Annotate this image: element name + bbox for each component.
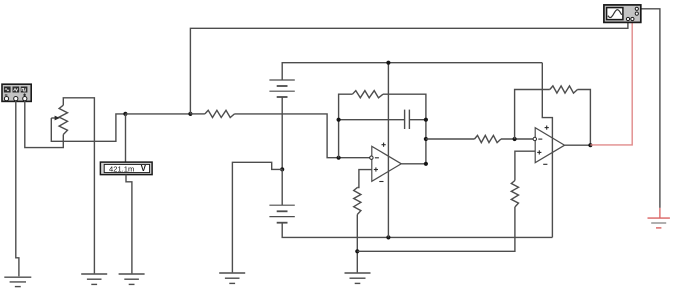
capacitor C1 right wire: [409, 119, 426, 121]
op-amp U3: [535, 128, 564, 163]
wire oscilloscope ground terminal: [641, 9, 660, 208]
node C1 left: [337, 118, 341, 122]
wire U3 output to oscilloscope channel B (red): [590, 21, 632, 145]
wire R5 to U3 inverting input: [501, 138, 534, 140]
node negative rail / U2 VEE: [386, 235, 390, 239]
ground (potentiometer top): [81, 274, 107, 284]
ground (supply center tap): [219, 273, 245, 283]
op-amp U3 V+ label: [545, 126, 549, 130]
wire center tap to ground: [232, 162, 282, 272]
wire battery V2 bottom to negative rail: [282, 223, 552, 238]
battery V1 plates: [269, 80, 294, 97]
function generator XFG1: [2, 84, 31, 101]
op-amp U3 plus label: [537, 150, 541, 154]
op-amp U2 V- label: [379, 181, 383, 183]
wire XFG1 common terminal down: [16, 101, 19, 277]
wire node B to resistor R2: [190, 113, 205, 115]
resistor R7 (U3 + input bias): [511, 181, 518, 208]
node G (U3 inverting input): [513, 137, 517, 141]
wire R1 wiper to node A: [51, 114, 125, 141]
voltmeter U1 (421.1m V): [100, 162, 152, 175]
wire U2 non-inverting input to resistor R4: [357, 170, 372, 188]
node E (U2 output): [424, 162, 428, 166]
wire R2 to op-amp U2 inverting input: [235, 114, 371, 158]
op-amp U3 V- label: [543, 163, 547, 165]
battery V2 plates: [269, 205, 294, 223]
resistor R6 (feedback of U3): [550, 86, 578, 93]
capacitor C1: [405, 110, 410, 129]
node A: [123, 112, 127, 116]
wire R3 to output rail: [383, 94, 426, 164]
wire R6 to U3 output: [578, 90, 591, 146]
wire R7 top to U3 non-inverting input: [515, 151, 535, 180]
wire node B to oscilloscope channel A: [190, 21, 628, 114]
resistor R3 (feedback of U2): [352, 91, 383, 98]
wire battery V1 bottom to center tap: [281, 97, 283, 169]
oscilloscope XSC1: [604, 5, 641, 23]
resistor R5 (input of U3): [475, 135, 502, 142]
op-amp U3 inverting input bubble: [533, 137, 536, 140]
wire R4 bottom to ground: [356, 215, 358, 273]
node C1 right: [424, 118, 428, 122]
wire center tap to battery V2 top: [281, 169, 283, 205]
wire U3 feedback rail up: [515, 90, 550, 140]
potentiometer R1 wiper arrow: [51, 116, 60, 121]
wire voltmeter to ground: [126, 175, 132, 274]
ground (voltmeter): [119, 274, 145, 284]
node H (V+ rail to U2): [386, 61, 390, 65]
wire R1 top to ground: [63, 98, 94, 274]
wire node A to node B: [125, 113, 190, 115]
svg-text:V: V: [141, 164, 147, 173]
node I (U3 output): [588, 143, 592, 147]
wire scope ground stub (red): [659, 208, 661, 218]
resistor R4 (U2 + input bias): [354, 188, 361, 215]
node D (ground node of R4): [355, 249, 359, 253]
svg-text:421.1m: 421.1m: [109, 164, 134, 173]
op-amp U2 plus label: [374, 167, 378, 171]
wire node F to resistor R5: [426, 138, 475, 140]
op-amp U3 minus label: [538, 138, 542, 140]
wire XFG1 negative terminal to potentiometer bottom: [25, 101, 64, 148]
wire U2 output to node E: [401, 163, 426, 165]
node C (inverting input of U2): [337, 156, 341, 160]
op-amp U2 power pins wire: [387, 63, 389, 238]
wire bias line node D to resistor R7: [357, 207, 515, 251]
node B: [188, 112, 192, 116]
ground (function generator common): [4, 277, 31, 286]
wire U2 feedback left rail: [339, 94, 353, 158]
node center-tap: [280, 167, 284, 171]
potentiometer R1 body: [59, 105, 67, 134]
op-amp U2 V+ label: [382, 143, 386, 147]
wire U3 output: [565, 144, 591, 146]
resistor R2: [205, 110, 235, 117]
wire battery V1 top to positive rail: [282, 63, 542, 80]
capacitor C1 left wire: [339, 119, 405, 121]
op-amp U2 inverting input bubble: [370, 156, 373, 159]
ground (R4 / bias): [345, 273, 371, 283]
op-amp U3 power pins wire: [542, 63, 552, 238]
op-amp U2 minus label: [375, 157, 379, 159]
node F (to next stage): [424, 137, 428, 141]
op-amp U2: [372, 146, 402, 181]
wire node A to voltmeter: [125, 114, 127, 162]
ground (oscilloscope, red): [648, 218, 670, 228]
